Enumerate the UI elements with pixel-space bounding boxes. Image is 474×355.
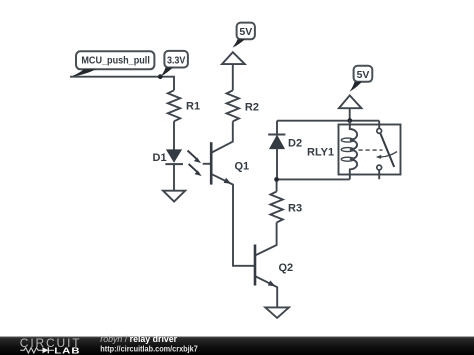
relay coil: [341, 121, 357, 180]
CircuitLab logo: [20, 336, 81, 355]
resistor R3: [270, 179, 282, 222]
ground (D1): [163, 191, 185, 202]
node junction at 3.3V tap: [158, 74, 163, 79]
resistor R1: [168, 90, 180, 121]
power supply arrow 5V (R2): [222, 52, 245, 90]
voltage label 5V (R2 supply): [233, 23, 255, 48]
footer bar: [0, 337, 474, 355]
voltage label 3.3V: [161, 51, 188, 76]
diode D2 (flyback): [268, 121, 285, 180]
light arrow 1 from D1: [188, 151, 202, 164]
svg-text:5V: 5V: [357, 69, 370, 81]
node junction at relay 5V: [347, 118, 352, 123]
svg-text:R3: R3: [288, 203, 302, 215]
svg-text:D2: D2: [288, 138, 302, 150]
relay switch contacts: [377, 121, 394, 180]
wire MCU node to R1: [70, 77, 174, 91]
node junction at R3/D2/coil rail: [274, 177, 279, 182]
wire R1 to D1: [173, 121, 175, 150]
svg-text:Q2: Q2: [279, 262, 294, 274]
resistor R2: [227, 90, 239, 121]
ground (Q2): [265, 307, 289, 318]
svg-text:3.3V: 3.3V: [167, 54, 186, 66]
svg-text:Q1: Q1: [235, 160, 250, 172]
svg-text:MCU_push_pull: MCU_push_pull: [81, 55, 150, 67]
svg-text:RLY1: RLY1: [307, 146, 334, 158]
relay RLY1 body: [339, 125, 401, 175]
diode D1 (LED): [165, 150, 183, 164]
wire coil bottom rail: [277, 178, 350, 180]
svg-text:R1: R1: [186, 101, 200, 113]
svg-text:LAB: LAB: [54, 347, 80, 355]
svg-text:R2: R2: [245, 101, 259, 113]
svg-text:robyn / relay driver: robyn / relay driver: [100, 334, 177, 344]
relay throw arrow: [376, 152, 397, 159]
transistor Q1 (NPN): [203, 121, 254, 265]
light arrow 2 from D1: [189, 164, 202, 176]
wire D1 to ground: [173, 164, 175, 191]
svg-text:5V: 5V: [239, 26, 252, 38]
power supply arrow 5V (relay): [339, 95, 362, 120]
wire D2 top to relay top: [277, 120, 379, 122]
voltage label 5V (relay supply): [350, 66, 373, 92]
transistor Q2 (NPN): [255, 223, 277, 308]
svg-text:D1: D1: [153, 152, 167, 164]
net label MCU_push_pull: [70, 51, 154, 77]
footer credit text: [100, 334, 198, 354]
svg-text:http://circuitlab.com/crxbjk7: http://circuitlab.com/crxbjk7: [100, 343, 198, 353]
relay actuation dashed link: [359, 149, 383, 151]
